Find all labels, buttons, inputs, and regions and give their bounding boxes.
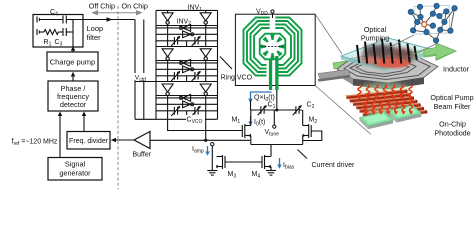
wire QxI0(t) blue [251, 92, 272, 100]
inverter row 2 right INV [200, 49, 211, 60]
transistor M3 [216, 155, 225, 169]
label Ring VCO with pointer [220, 57, 232, 70]
green pump arrow head [424, 43, 456, 60]
svg-text:Photodiode: Photodiode [434, 129, 470, 138]
Vtune terminal [273, 110, 275, 125]
wire row 3 [168, 94, 206, 96]
inductor box [235, 14, 315, 85]
optical pump rays bottom [364, 100, 367, 111]
buffer [134, 132, 150, 149]
cell 3 varactors [156, 110, 218, 112]
label Current driver with pointer [298, 150, 308, 159]
wire M3 gate to M4 gate [225, 161, 262, 163]
svg-text:generator: generator [59, 169, 91, 178]
svg-text:Freq. divider: Freq. divider [69, 138, 109, 145]
node Vctrl bus in loop filter [72, 20, 74, 48]
transistor M4 [262, 155, 271, 169]
svg-text:Optical Pump: Optical Pump [430, 93, 473, 102]
cell 1 latch inverter pointing right [156, 33, 218, 35]
wire PFD to charge pump [72, 76, 74, 81]
cell 2 latch inverter pointing right [156, 68, 218, 70]
delay cell 2 box [156, 61, 218, 82]
cell 2 latch inverter pointing left [156, 62, 218, 64]
capacitor C2 [296, 107, 299, 114]
capacitor C4 [37, 16, 73, 24]
phase / frequency detector [48, 81, 98, 111]
transistor M2 [303, 124, 312, 138]
projection lines to 3D view [315, 14, 342, 54]
svg-text:detector: detector [60, 100, 87, 109]
spiral inductor L1 [244, 18, 302, 76]
optical pump rays top [358, 85, 361, 96]
wire signal generator to PFD [59, 115, 61, 158]
inverter row 3 right INV [200, 84, 211, 95]
svg-text:Current driver: Current driver [312, 162, 355, 169]
svg-text:filter: filter [87, 33, 102, 42]
inverter row 1 right INV [200, 13, 211, 24]
wire buffer to freq divider [115, 139, 134, 141]
crystal lattice callout [414, 5, 450, 34]
ground under M4 [266, 171, 276, 176]
field posts [357, 39, 417, 65]
cell 2 varactors [156, 75, 218, 77]
delay cell 3 box [156, 96, 218, 120]
ring feedback wire [143, 20, 145, 120]
vapor cell (teal slab) [341, 38, 434, 68]
cell 1 varactors [156, 40, 218, 42]
svg-text:Loop: Loop [87, 24, 104, 33]
wire freq divider to PFD [83, 115, 85, 132]
wire VCO output to buffer [205, 119, 207, 140]
optical pump beam filter (red bars) [359, 83, 411, 97]
wire buffer input [150, 139, 250, 141]
charge pump [47, 52, 98, 71]
wire M1 drain/source [250, 110, 252, 126]
wire VCO to M1 gate [135, 118, 156, 120]
wire row 1 [168, 24, 206, 25]
wire main tank node [250, 100, 252, 110]
svg-text:Pumping: Pumping [361, 34, 389, 43]
chip beam left [318, 70, 350, 80]
svg-text:Off Chip: Off Chip [89, 1, 115, 10]
off chip / on chip boundary [117, 6, 119, 189]
inverter row 1 left INV [162, 13, 173, 24]
svg-text:Buffer: Buffer [133, 152, 152, 159]
inverter row 2 left INV [162, 49, 173, 60]
svg-text:Ring VCO: Ring VCO [221, 75, 253, 82]
inductor platform (3D) [337, 54, 438, 83]
resistor R1 and capacitor C3 [37, 28, 73, 36]
label Ibias [279, 158, 281, 166]
delay cell 1 box [156, 26, 218, 47]
wire tail rail [251, 144, 303, 146]
glow between filter and photodiode [366, 106, 414, 118]
capacitor C1 [261, 107, 264, 114]
svg-text:On Chip: On Chip [122, 1, 148, 10]
wire charge pump to loop filter [72, 48, 74, 52]
wire loop filter to VCO [73, 19, 135, 21]
transistor M1 [242, 124, 251, 138]
ring VCO rails [156, 10, 218, 119]
cell 3 latch inverter pointing right [156, 103, 218, 105]
signal generator [48, 158, 102, 181]
green pump arrow (tail behind platform) [333, 43, 456, 69]
hot vapor cloud [361, 47, 415, 66]
freq divider [67, 132, 110, 150]
wire M2 gate loop [303, 131, 322, 141]
on-chip photodiode [360, 112, 394, 126]
cell 1 latch inverter pointing left [156, 27, 218, 29]
svg-text:On-Chip: On-Chip [439, 120, 466, 129]
Iamp input terminal [211, 143, 214, 146]
cell 3 latch inverter pointing left [156, 97, 218, 99]
inductor leads [269, 60, 272, 90]
node Vctrl [134, 20, 136, 120]
wire row 2 [168, 59, 206, 61]
wire M4 [270, 152, 272, 157]
loop filter box [33, 15, 83, 48]
svg-text:Inductor: Inductor [443, 65, 470, 74]
ground under M3 [207, 171, 217, 176]
svg-text:Charge pump: Charge pump [50, 57, 95, 66]
wire M2 drain/source [302, 110, 304, 126]
svg-text:Signal: Signal [65, 160, 86, 169]
svg-text:Beam Filter: Beam Filter [434, 102, 471, 111]
inverter row 3 left INV [162, 84, 173, 95]
label CVCO [186, 115, 205, 122]
